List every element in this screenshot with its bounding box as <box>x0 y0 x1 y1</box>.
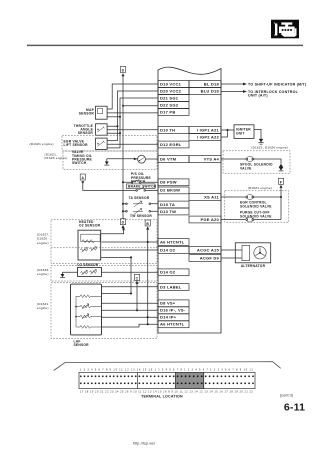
wire: O2 sensor low terminal down to LAF label wire <box>101 257 131 293</box>
svg-text:ACGF D9: ACGF D9 <box>200 255 220 260</box>
arrow below lower node D pointing up <box>122 225 125 228</box>
svg-text:D17 PB: D17 PB <box>160 109 176 114</box>
wire: D18 to shift-up indicator <box>221 83 243 85</box>
wire: D18 to interlock control unit <box>221 91 243 93</box>
ECM connector strip <box>79 372 255 388</box>
wire: O2 (Z6) to ground <box>63 272 78 274</box>
dashed enclosure: heated O2 sensor (D16Z7, D16Z6) <box>51 220 157 264</box>
wire: VTS A4 to spool solenoid <box>221 158 245 160</box>
svg-text:TERMINAL LOCATION: TERMINAL LOCATION <box>141 395 183 399</box>
svg-text:http://tsp.ws/: http://tsp.ws/ <box>133 442 155 446</box>
svg-text:D16Z6 engine): D16Z6 engine) <box>45 156 68 160</box>
LAF cell 3 <box>76 314 102 319</box>
svg-text:D8 VS+: D8 VS+ <box>160 301 176 306</box>
svg-text:B: B <box>146 222 149 226</box>
wire: TPS ground to D21 SG1 <box>107 98 158 133</box>
dashed enclosure: valve timing oil pressure switch (D16Z1, D16Z6) <box>63 151 157 169</box>
wire: bus to pin D22 SG2 <box>123 105 158 107</box>
wire: signal ground bus (node D down to node D lower) <box>122 75 124 219</box>
dashed enclosure: EGR valve lift sensor (D16Z1) <box>62 135 157 151</box>
pin D6 VTM <box>158 156 189 163</box>
connector C section (shaded) <box>176 372 204 388</box>
dashed enclosure: spool solenoid valve <box>223 151 290 173</box>
TA sensor <box>126 196 151 207</box>
brake switch <box>126 184 156 191</box>
junction: node C on VS- wire <box>136 309 138 311</box>
EGR valve lift sensor <box>64 138 108 149</box>
pin D15 TA <box>158 201 189 208</box>
pin cell XS A11 <box>189 194 221 201</box>
junction: EGR on F bus <box>280 196 282 198</box>
wire: TPS signal to D10 TH <box>107 129 158 131</box>
ground (valve timing switch) <box>104 159 109 165</box>
wire: ACGC A15 to alternator <box>221 249 242 251</box>
purge cut-off solenoid coil L3 <box>246 217 254 222</box>
svg-text:D3 LABEL: D3 LABEL <box>160 284 182 289</box>
header rule <box>27 44 303 46</box>
junction: LAF label tie <box>130 292 132 294</box>
pin D13 TW <box>158 208 189 215</box>
wire: VTS switch to D6 VTM <box>145 158 158 160</box>
wire: brake switch to D2 BKSW <box>146 189 159 191</box>
svg-text:SOLENOID VALVE: SOLENOID VALVE <box>240 205 272 209</box>
wire: O2 sensor ground to node D bus <box>101 229 124 234</box>
pin D17 PB <box>158 109 189 116</box>
svg-text:D15 TA: D15 TA <box>160 202 175 207</box>
heater resistor <box>81 234 100 241</box>
svg-text:D12 EGRL: D12 EGRL <box>160 142 182 147</box>
dashed enclosure: O2 sensor (D16Z6) <box>51 265 157 281</box>
wire: EGR lift VCC <box>107 126 117 140</box>
svg-text:VALVE: VALVE <box>240 167 252 171</box>
ground (igniter) <box>258 139 263 144</box>
svg-text:D16 IP-, VS-: D16 IP-, VS- <box>160 308 186 313</box>
pin D10 TH <box>158 127 189 134</box>
wire: SG bus to P/S switch to D8 PSW <box>123 181 158 183</box>
engine icon (PGM-FI section symbol, top right) <box>271 20 299 39</box>
dashed enclosure: LAF sensor (D16Z1) <box>51 283 157 339</box>
svg-text:1 2 3 4 5 6 7 8 9 10 11 12 13: 1 2 3 4 5 6 7 8 9 10 11 12 13 14 15 16 1… <box>80 369 253 372</box>
pin D12 EGRL <box>158 141 189 148</box>
sensor element <box>81 249 88 252</box>
wire: XS A11 to EGR solenoid <box>221 196 245 198</box>
svg-text:6-11: 6-11 <box>284 402 305 414</box>
wire: TPS VCC to D20 VCC2 <box>107 91 158 126</box>
spool solenoid coil L1 <box>240 157 273 171</box>
pin cell ACGF D9 <box>189 255 221 262</box>
svg-text:O2 SENSOR: O2 SENSOR <box>79 224 101 228</box>
svg-text:XS A11: XS A11 <box>204 194 219 199</box>
wire: spool solenoid to ground <box>254 159 281 164</box>
LAF inner bus <box>75 296 77 327</box>
svg-text:D14 O2: D14 O2 <box>160 247 176 252</box>
node B <box>145 220 150 230</box>
svg-text:TA SENSOR: TA SENSOR <box>129 196 150 200</box>
label (D16Z7, D16Z6 engine) <box>37 232 50 245</box>
label (D16Z1 engine) lower <box>37 302 49 310</box>
connector D section <box>203 372 205 388</box>
ECM bracket outline (terminal location sketch) <box>54 362 281 371</box>
svg-text:VTS A4: VTS A4 <box>204 156 220 161</box>
alternator <box>235 243 270 268</box>
terminal numbers bottom row <box>80 390 253 393</box>
svg-text:SOLENOID VALVE: SOLENOID VALVE <box>240 214 272 218</box>
svg-text:LIFT SENSOR: LIFT SENSOR <box>64 143 89 147</box>
LAF cell 2 <box>76 304 102 309</box>
svg-text:D13 TW: D13 TW <box>160 209 176 214</box>
junction: D22 SG2 on bus <box>122 105 124 107</box>
junction: node B bus end at LAF heater row <box>147 323 149 325</box>
arrow to interlock control unit <box>243 90 247 93</box>
svg-text:17 18 19 20 21 22 23 24 25 26: 17 18 19 20 21 22 23 24 25 26 9 10 11 12… <box>80 390 253 393</box>
wire: ACGF D9 to alternator <box>221 257 242 259</box>
pin cell BL D18 <box>189 81 221 88</box>
svg-text:F: F <box>280 180 282 184</box>
pins section A <box>80 375 82 377</box>
wire: IGP1 A21 to igniter <box>221 129 234 131</box>
svg-text:TO SHIFT-UP INDICATOR (M/T): TO SHIFT-UP INDICATOR (M/T) <box>248 82 307 86</box>
svg-text:D22 SG2: D22 SG2 <box>160 102 179 107</box>
svg-text:UNIT (A/T): UNIT (A/T) <box>248 94 268 98</box>
ECM U1 outline (wavy top, continuation) <box>158 67 221 333</box>
wire: O2 signal to D14 O2 <box>102 249 159 251</box>
wire: SG bus to TW sensor to D13 TW <box>123 210 158 212</box>
svg-text:SWITCH: SWITCH <box>72 161 87 165</box>
pin A6 HTCNTL <box>158 239 189 246</box>
pin D16 IP- VS- <box>158 307 189 314</box>
pin cell VTS A4 <box>189 156 221 163</box>
connector A section <box>137 372 139 388</box>
node D (top of signal-ground bus) <box>120 66 125 76</box>
pin D14 IP+ <box>158 314 189 321</box>
ground (O2 sensor D16Z6) <box>60 274 65 278</box>
wire: LAF label cell joins O2 low terminal <box>102 293 132 295</box>
pin D22 SG2 <box>158 102 189 109</box>
node A <box>80 174 85 184</box>
node D (lower end of SG bus) <box>120 219 125 225</box>
wire: purge solenoid to node F bus <box>254 219 281 221</box>
svg-text:C: C <box>136 276 139 280</box>
label (D16Z6 engine) <box>37 268 49 276</box>
svg-text:D14 IP+: D14 IP+ <box>160 315 177 320</box>
LAF sensor <box>71 284 102 347</box>
svg-text:D: D <box>122 68 125 72</box>
junction: P/S on SG bus <box>122 181 124 183</box>
pin A6 HTCNTL (LAF) <box>158 321 189 328</box>
wire: MAP SG to VCC bus area <box>107 116 120 118</box>
igniter unit <box>234 125 254 139</box>
wire: LAF to D3 LABEL <box>102 286 159 288</box>
svg-text:D: D <box>122 221 125 225</box>
pin D8 VS+ <box>158 300 189 307</box>
pin cell PGE A20 <box>189 216 221 223</box>
svg-text:engine): engine) <box>37 241 49 245</box>
wire: MAP VCC to D19 VCC1 <box>107 84 158 109</box>
pin cell I IGP1 A21 <box>189 127 221 134</box>
svg-text:SENSOR: SENSOR <box>74 343 90 347</box>
svg-text:A: A <box>81 176 84 180</box>
connector B section <box>175 372 177 388</box>
junction: node B bus on heater wire <box>147 241 149 243</box>
pin cell ACGC A15 <box>189 247 221 254</box>
svg-text:D2 BKSW: D2 BKSW <box>160 188 180 193</box>
svg-text:I IGP2 A22: I IGP2 A22 <box>197 134 220 139</box>
pin D19 VCC1 <box>158 81 189 88</box>
pin cell I IGP2 A22 <box>189 134 221 141</box>
svg-text:BL D18: BL D18 <box>204 81 220 86</box>
wire: SG bus to TA sensor to D15 TA <box>123 203 158 206</box>
pin D2 BKSW <box>158 187 189 194</box>
pin D8 PSW <box>158 179 189 186</box>
junction: O2 low terminal corner <box>130 256 132 258</box>
svg-text:ALTERNATOR: ALTERNATOR <box>241 264 266 268</box>
throttle angle sensor <box>74 124 107 135</box>
wire: LAF VS-/IP- to D16 <box>102 309 159 311</box>
dashed enclosure: EGR + purge solenoid valves <box>225 191 289 222</box>
node C <box>134 274 139 284</box>
svg-text:UNIT: UNIT <box>236 131 245 135</box>
junction: TA on SG bus <box>122 203 124 205</box>
wire: IGP2 A22 tie-in <box>221 130 228 137</box>
svg-text:D10 TH: D10 TH <box>160 127 175 132</box>
node F <box>278 178 283 188</box>
O2 sensor (D16Z6) <box>77 263 101 276</box>
pin cell BLU D18 <box>189 88 221 95</box>
svg-text:(cont'd): (cont'd) <box>280 394 293 398</box>
svg-text:ACGC A15: ACGC A15 <box>197 247 220 252</box>
junction: IGP1/IGP2 tie <box>226 129 228 131</box>
MAP sensor <box>79 106 107 119</box>
junction: TW on SG bus <box>122 210 124 212</box>
pin D14 O2 (D16Z6) <box>158 269 189 276</box>
dashed separator under heated O2 <box>51 247 157 249</box>
wire: node C down to LAF VS- <box>136 284 138 311</box>
svg-text:D20 VCC2: D20 VCC2 <box>160 88 182 93</box>
svg-text:BLU D18: BLU D18 <box>201 88 220 93</box>
P/S oil pressure switch <box>131 172 151 183</box>
ground (spool solenoid) <box>279 164 284 171</box>
LAF heater <box>76 326 102 329</box>
svg-text:A6 HTCNTL: A6 HTCNTL <box>160 239 185 244</box>
svg-text:PGE A20: PGE A20 <box>201 217 220 222</box>
pin D20 VCC2 <box>158 88 189 95</box>
wire: LAF heater to A6 HTCNTL <box>102 324 159 327</box>
svg-text:engine): engine) <box>37 272 49 276</box>
wire: node B heater-power bus <box>147 229 149 324</box>
svg-text:D6 VTM: D6 VTM <box>160 156 177 161</box>
wire: O2 (Z6) signal to D14 O2 <box>102 271 159 273</box>
wire: LAF VS+ to D8 VS+ <box>102 302 159 304</box>
junction: SG bus at TPS <box>119 132 121 134</box>
wire: node F bus down <box>280 188 282 220</box>
wire: VTS switch to ground <box>107 158 138 160</box>
svg-text:(D16Z1 engine): (D16Z1 engine) <box>30 142 54 146</box>
pin D14 O2 <box>158 247 189 254</box>
junction: VCC bus at TPS <box>116 125 118 127</box>
valve timing oil pressure switch VTS <box>72 150 145 165</box>
wire: LAF IP+ to D14 IP+ <box>102 316 159 318</box>
svg-text:D8 PSW: D8 PSW <box>160 180 177 185</box>
svg-text:TW SENSOR: TW SENSOR <box>130 214 152 218</box>
svg-text:D21 SG1: D21 SG1 <box>160 95 179 100</box>
svg-text:D14 O2: D14 O2 <box>160 270 176 275</box>
svg-text:SENSOR: SENSOR <box>79 112 95 116</box>
svg-text:D19 VCC1: D19 VCC1 <box>160 81 182 86</box>
terminal numbers top row <box>80 369 253 372</box>
junction: heater bus at IP+ row <box>147 316 149 318</box>
wire: igniter to ground <box>254 129 261 139</box>
wire: O2 heater to A6 HTCNTL <box>102 241 159 243</box>
heated O2 sensor <box>78 220 101 260</box>
LAF cell 1 <box>76 295 102 298</box>
TW sensor <box>126 209 153 218</box>
svg-text:engine): engine) <box>37 306 49 310</box>
wire: EGR lift ground <box>107 133 120 148</box>
svg-text:O2 SENSOR: O2 SENSOR <box>77 263 99 267</box>
svg-text:A6 HTCNTL: A6 HTCNTL <box>160 322 185 327</box>
terminal pins <box>80 375 254 384</box>
wire: node A down to brake switch <box>83 184 136 190</box>
svg-text:(D16Z1, D16Z6 engine): (D16Z1, D16Z6 engine) <box>251 146 288 150</box>
EGR control solenoid coil L2 <box>240 195 272 209</box>
svg-text:SENSOR: SENSOR <box>78 131 94 135</box>
pin D3 LABEL <box>158 284 189 291</box>
pin D21 SG1 <box>158 95 189 102</box>
svg-text:(D16Z1 engine): (D16Z1 engine) <box>248 186 272 190</box>
arrow to shift-up indicator <box>243 83 247 86</box>
wire: EGR solenoid to node F bus <box>254 196 281 198</box>
svg-text:I IGP1 A21: I IGP1 A21 <box>197 127 220 132</box>
wire: EGR lift signal to D12 EGRL <box>107 143 158 145</box>
junction: sensor ground at node D arrow <box>123 228 125 230</box>
wire: PGE A20 to purge solenoid <box>221 219 245 221</box>
wire: MAP PB to D17 PB <box>107 112 158 114</box>
